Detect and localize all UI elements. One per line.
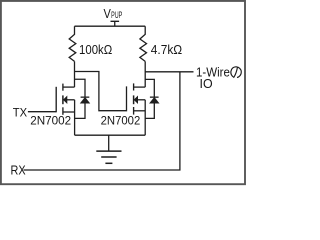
svg-text:RX: RX (11, 163, 26, 178)
node RX label (11, 163, 26, 178)
node TX label (13, 106, 28, 120)
svg-text:TX: TX (13, 106, 28, 120)
svg-text:IO: IO (200, 77, 213, 91)
resistor R1 100kohm (69, 26, 76, 61)
label 2N7002 part number of Q2 (101, 115, 141, 127)
label 4.7kohm value of R2 (151, 43, 182, 57)
svg-text:V: V (104, 6, 111, 21)
transistor Q1 gate bar (55, 87, 57, 113)
transistor Q2 source plate and lead (134, 107, 146, 115)
node 1-Wire IO label (196, 65, 241, 91)
wire R1 bottom to Q1 drain (74, 61, 76, 87)
transistor Q1 channel middle plate and body arrow (63, 95, 75, 104)
transistor Q2 channel middle plate and body arrow (134, 95, 146, 104)
wire VPUP top rail (75, 25, 146, 27)
wire Q1 drain to Q2 gate (75, 72, 127, 111)
label VPUP (104, 6, 123, 21)
diode D1 body diode of Q1 (75, 79, 90, 118)
wire source ground rail (75, 134, 146, 136)
wire TX lead to Q1 gate (28, 111, 56, 113)
svg-text:PUP: PUP (111, 10, 122, 21)
transistor Q2 drain plate and lead (134, 83, 146, 90)
diode D2 body diode of Q2 (145, 79, 158, 118)
wire RX line and tap to 1-Wire IO (24, 72, 180, 170)
wire R2 bottom to Q2 drain (144, 61, 146, 87)
transistor Q1 drain plate and lead (63, 84, 75, 91)
svg-text:2N7002: 2N7002 (101, 115, 141, 127)
ground symbol (96, 135, 121, 163)
resistor R2 4.7kohm (140, 26, 147, 61)
svg-text:2N7002: 2N7002 (30, 114, 71, 127)
svg-text:4.7kΩ: 4.7kΩ (151, 43, 182, 57)
svg-text:100kΩ: 100kΩ (79, 42, 112, 57)
transistor Q1 source plate and lead (63, 107, 75, 115)
node VPUP terminal (111, 21, 120, 26)
wire 1-Wire IO line (145, 71, 193, 73)
label 2N7002 part number of Q1 (30, 114, 71, 127)
wire Q1 source/body down to ground rail (74, 100, 76, 135)
label 100kohm value of R1 (79, 42, 112, 57)
wire Q2 source/body down to ground rail (144, 100, 146, 135)
